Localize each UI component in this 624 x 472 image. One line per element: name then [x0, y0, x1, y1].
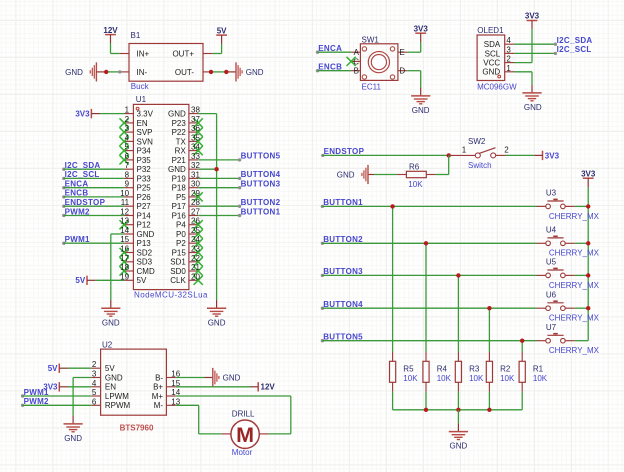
svg-text:MC096GW: MC096GW: [477, 83, 517, 92]
svg-text:OLED1: OLED1: [477, 26, 504, 35]
svg-text:PWM1: PWM1: [65, 235, 90, 244]
svg-text:I2C_SDA: I2C_SDA: [557, 36, 593, 45]
svg-text:RX: RX: [175, 147, 187, 156]
svg-text:16: 16: [120, 245, 129, 254]
svg-text:R1: R1: [533, 364, 544, 373]
svg-text:17: 17: [120, 254, 129, 263]
svg-text:GND: GND: [105, 373, 123, 382]
svg-text:P34: P34: [137, 147, 152, 156]
svg-text:D: D: [399, 67, 405, 76]
svg-text:ENDSTOP: ENDSTOP: [65, 198, 106, 207]
svg-text:CHERRY_MX: CHERRY_MX: [549, 281, 600, 290]
svg-text:CHERRY_MX: CHERRY_MX: [549, 314, 600, 323]
svg-text:R5: R5: [403, 364, 414, 373]
svg-text:10K: 10K: [533, 374, 548, 383]
svg-text:7: 7: [125, 161, 130, 170]
svg-text:SDA: SDA: [484, 40, 501, 49]
svg-text:SVN: SVN: [137, 137, 154, 146]
svg-text:GND: GND: [65, 68, 83, 77]
svg-text:5: 5: [125, 143, 130, 152]
svg-text:LPWM: LPWM: [105, 392, 129, 401]
svg-text:EN: EN: [137, 119, 148, 128]
svg-text:5V: 5V: [48, 364, 58, 373]
svg-text:24: 24: [191, 235, 200, 244]
svg-text:EC11: EC11: [362, 83, 382, 92]
svg-text:R3: R3: [469, 364, 480, 373]
svg-text:DRILL: DRILL: [232, 410, 255, 419]
svg-text:P16: P16: [172, 211, 187, 220]
svg-text:M+: M+: [152, 392, 164, 401]
svg-text:R2: R2: [500, 364, 511, 373]
svg-text:I2C_SCL: I2C_SCL: [65, 170, 100, 179]
svg-text:10K: 10K: [500, 374, 515, 383]
svg-text:B: B: [354, 67, 359, 76]
svg-text:P25: P25: [137, 184, 152, 193]
svg-text:SD0: SD0: [170, 267, 186, 276]
svg-text:RPWM: RPWM: [105, 401, 131, 410]
svg-text:SVP: SVP: [137, 128, 153, 137]
svg-text:OUT-: OUT-: [175, 68, 194, 77]
svg-text:5V: 5V: [105, 364, 115, 373]
svg-text:3: 3: [92, 370, 97, 379]
svg-text:P27: P27: [137, 202, 152, 211]
svg-text:ENCB: ENCB: [65, 189, 89, 198]
svg-text:3V3: 3V3: [581, 169, 596, 178]
svg-text:BUTTON1: BUTTON1: [241, 207, 281, 216]
svg-text:P12: P12: [137, 221, 152, 230]
svg-text:ENCA: ENCA: [65, 180, 89, 189]
svg-text:GND: GND: [246, 68, 264, 77]
svg-text:R6: R6: [409, 163, 420, 172]
svg-text:CHERRY_MX: CHERRY_MX: [549, 346, 600, 355]
svg-text:10K: 10K: [408, 180, 423, 189]
svg-text:10K: 10K: [437, 374, 452, 383]
svg-text:CMD: CMD: [137, 267, 155, 276]
svg-text:P26: P26: [137, 193, 152, 202]
svg-text:M: M: [236, 423, 254, 447]
svg-text:P2: P2: [176, 239, 186, 248]
svg-text:21: 21: [191, 263, 200, 272]
svg-text:A: A: [354, 48, 360, 57]
svg-text:SD2: SD2: [137, 248, 153, 257]
svg-text:37: 37: [191, 115, 200, 124]
svg-text:GND: GND: [412, 106, 430, 115]
svg-text:22: 22: [191, 254, 200, 263]
svg-text:3V3: 3V3: [545, 151, 560, 160]
svg-text:B+: B+: [153, 383, 163, 392]
svg-text:3V3: 3V3: [525, 12, 540, 21]
svg-text:12V: 12V: [103, 26, 118, 35]
svg-text:35: 35: [191, 133, 200, 142]
svg-text:M-: M-: [154, 401, 164, 410]
svg-text:P17: P17: [172, 202, 187, 211]
svg-text:10K: 10K: [469, 374, 484, 383]
svg-text:PWM2: PWM2: [65, 207, 90, 216]
svg-text:GND: GND: [168, 165, 186, 174]
svg-text:P32: P32: [137, 165, 152, 174]
svg-text:34: 34: [191, 143, 200, 152]
svg-text:ENCA: ENCA: [318, 44, 342, 53]
svg-text:P14: P14: [137, 211, 152, 220]
svg-text:4: 4: [92, 379, 97, 388]
svg-text:18: 18: [120, 263, 129, 272]
svg-text:GND: GND: [102, 318, 120, 327]
svg-text:P5: P5: [176, 193, 186, 202]
svg-text:U7: U7: [546, 323, 557, 332]
svg-text:3.3V: 3.3V: [137, 110, 154, 119]
svg-text:CLK: CLK: [170, 276, 186, 285]
svg-text:E: E: [399, 48, 404, 57]
svg-text:I2C_SDA: I2C_SDA: [65, 161, 101, 170]
svg-text:9: 9: [125, 180, 130, 189]
svg-text:B-: B-: [155, 373, 163, 382]
svg-text:5V: 5V: [75, 276, 85, 285]
svg-text:SCL: SCL: [485, 49, 501, 58]
svg-text:4: 4: [125, 133, 130, 142]
svg-text:GND: GND: [337, 170, 355, 179]
svg-text:2: 2: [125, 115, 130, 124]
svg-text:SD1: SD1: [170, 258, 186, 267]
svg-text:P23: P23: [172, 119, 187, 128]
svg-text:BTS7960: BTS7960: [120, 423, 154, 432]
svg-text:R4: R4: [437, 364, 448, 373]
svg-text:OUT+: OUT+: [172, 49, 194, 58]
svg-text:6: 6: [92, 397, 97, 406]
svg-text:ENCB: ENCB: [318, 63, 342, 72]
svg-text:8: 8: [125, 170, 130, 179]
svg-text:P18: P18: [172, 184, 187, 193]
svg-text:GND: GND: [450, 442, 468, 451]
svg-text:1: 1: [506, 64, 511, 73]
svg-text:IN+: IN+: [137, 49, 150, 58]
svg-text:36: 36: [191, 124, 200, 133]
svg-text:U4: U4: [546, 226, 557, 235]
svg-text:GND: GND: [524, 103, 542, 112]
svg-text:GND: GND: [168, 110, 186, 119]
svg-text:BUTTON4: BUTTON4: [241, 170, 281, 179]
svg-text:CHERRY_MX: CHERRY_MX: [549, 249, 600, 258]
svg-text:SD3: SD3: [137, 258, 153, 267]
svg-text:25: 25: [191, 226, 200, 235]
svg-text:2: 2: [506, 55, 511, 64]
svg-text:6: 6: [125, 152, 130, 161]
svg-text:P15: P15: [172, 248, 187, 257]
svg-text:VCC: VCC: [483, 59, 500, 68]
svg-text:2: 2: [504, 146, 509, 155]
svg-text:BUTTON2: BUTTON2: [241, 198, 281, 207]
svg-text:GND: GND: [137, 230, 155, 239]
svg-text:12V: 12V: [261, 383, 276, 392]
svg-text:P21: P21: [172, 156, 187, 165]
svg-text:5V: 5V: [137, 276, 147, 285]
svg-text:P0: P0: [176, 230, 186, 239]
svg-text:29: 29: [191, 189, 200, 198]
svg-text:10K: 10K: [403, 374, 418, 383]
svg-text:P35: P35: [137, 156, 152, 165]
svg-text:P33: P33: [137, 174, 152, 183]
svg-text:I2C_SCL: I2C_SCL: [557, 45, 592, 54]
svg-text:2: 2: [92, 360, 97, 369]
svg-text:GND: GND: [208, 318, 226, 327]
svg-text:SW1: SW1: [362, 35, 380, 44]
svg-text:BUTTON3: BUTTON3: [241, 180, 281, 189]
svg-text:Switch: Switch: [468, 161, 492, 170]
svg-text:3V3: 3V3: [414, 24, 429, 33]
svg-text:3V3: 3V3: [75, 110, 90, 119]
svg-text:5V: 5V: [217, 26, 227, 35]
svg-text:SW2: SW2: [468, 137, 486, 146]
svg-text:20: 20: [191, 272, 200, 281]
svg-text:3: 3: [125, 124, 130, 133]
svg-text:U2: U2: [102, 340, 113, 349]
svg-text:BUTTON5: BUTTON5: [241, 152, 281, 161]
svg-text:U3: U3: [546, 189, 557, 198]
svg-text:23: 23: [191, 245, 200, 254]
svg-text:13: 13: [120, 217, 129, 226]
svg-text:P19: P19: [172, 174, 187, 183]
svg-text:GND: GND: [223, 373, 241, 382]
svg-text:P13: P13: [137, 239, 152, 248]
svg-text:TX: TX: [176, 137, 187, 146]
svg-text:B1: B1: [131, 31, 141, 40]
svg-text:Motor: Motor: [232, 448, 253, 457]
svg-text:5: 5: [92, 388, 97, 397]
svg-text:P22: P22: [172, 128, 187, 137]
svg-text:P4: P4: [176, 221, 186, 230]
svg-text:IN-: IN-: [137, 68, 148, 77]
svg-text:CHERRY_MX: CHERRY_MX: [549, 212, 600, 221]
svg-text:U1: U1: [136, 95, 147, 104]
svg-text:1: 1: [125, 106, 130, 115]
svg-text:U6: U6: [546, 290, 557, 299]
svg-text:1: 1: [462, 146, 467, 155]
svg-text:GND: GND: [64, 434, 82, 443]
svg-text:U5: U5: [546, 258, 557, 267]
svg-text:Buck: Buck: [131, 82, 150, 91]
svg-text:EN: EN: [105, 383, 116, 392]
svg-text:NodeMCU-32SLua: NodeMCU-32SLua: [134, 290, 208, 299]
svg-text:26: 26: [191, 217, 200, 226]
svg-text:3: 3: [506, 45, 511, 54]
svg-text:4: 4: [506, 36, 511, 45]
